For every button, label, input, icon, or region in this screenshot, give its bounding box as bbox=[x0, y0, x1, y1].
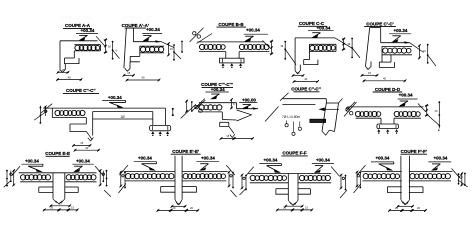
vdim A-A outer bbox=[108, 41, 120, 60]
svg-text:+00.34: +00.34 bbox=[108, 95, 122, 100]
level +00.34 (C-C) bbox=[308, 25, 334, 38]
level +00.34 right (E'-E') bbox=[196, 156, 219, 171]
wall and slab outline A-A bbox=[60, 36, 105, 72]
vdim B-B inner bbox=[270, 40, 274, 55]
level +00.34 (C''-C'') bbox=[102, 95, 125, 108]
slab voids B-B right bbox=[239, 44, 269, 49]
right end vdims E-E bbox=[99, 169, 111, 196]
svg-text:20: 20 bbox=[417, 206, 420, 210]
wall with break C''-C'' detail bbox=[322, 99, 343, 136]
left end vdims F'-F' bbox=[354, 171, 362, 193]
slab voids C'''-C''' bbox=[199, 105, 222, 110]
level +00.34 (C'-C') bbox=[389, 28, 411, 42]
hdim E'-E' wall bbox=[171, 202, 187, 208]
slab voids A-A bbox=[75, 45, 100, 50]
slab voids C''-C'' bbox=[55, 110, 85, 115]
title COUPE C''-C'' bbox=[63, 88, 99, 93]
base pad anchor marks B-B bbox=[221, 59, 242, 68]
slab voids A'-A' bbox=[140, 47, 163, 52]
T-beam outline D-D bbox=[346, 102, 426, 129]
svg-text:15: 15 bbox=[368, 71, 371, 75]
hdim C''-C'' ledge bbox=[72, 141, 91, 147]
svg-text:COUPE B-B: COUPE B-B bbox=[218, 22, 244, 27]
slab voids F'-F' right bbox=[410, 174, 451, 179]
vdim C'-C' cluster bbox=[418, 44, 436, 66]
level +00.00 (C'''-C''') bbox=[239, 97, 257, 109]
svg-text:15: 15 bbox=[59, 202, 62, 206]
cross junction outline E'-E' bbox=[119, 156, 234, 205]
title COUPE F'-F' bbox=[401, 149, 428, 154]
left end vdims E'-E' bbox=[119, 171, 127, 193]
hdim E-E bottom bbox=[43, 206, 79, 212]
svg-text:COUPE C''-C'': COUPE C''-C'' bbox=[291, 87, 321, 92]
svg-text:+00.34: +00.34 bbox=[263, 158, 277, 163]
slab voids D-D right bbox=[394, 111, 420, 116]
hdim E-E stem bbox=[50, 202, 72, 208]
level +00.34 (D-D) bbox=[398, 93, 418, 107]
T-beam outline B-B bbox=[197, 34, 270, 63]
svg-text:ECHELLE 1/20: ECHELLE 1/20 bbox=[296, 15, 327, 20]
faint scale labels bbox=[60, 15, 399, 20]
left end vdims C''-C'' bbox=[34, 106, 47, 124]
svg-text:20: 20 bbox=[177, 202, 180, 206]
level +00.34 right (F'-F') bbox=[428, 156, 451, 171]
level +00.34 left (F'-F') bbox=[371, 156, 394, 171]
T-junction outline E-E bbox=[12, 166, 103, 204]
title COUPE E-E bbox=[45, 151, 70, 156]
left end vdims F-F bbox=[240, 174, 247, 195]
svg-text:15: 15 bbox=[226, 134, 229, 138]
slab voids F-F right bbox=[299, 175, 330, 180]
vdim C'''-C''' step bbox=[230, 98, 235, 109]
hdim C'-C' wall width bbox=[361, 71, 379, 77]
footing anchor marks D-D bbox=[377, 125, 398, 134]
svg-text:+00.00: +00.00 bbox=[242, 97, 256, 102]
title COUPE A-A bbox=[63, 23, 92, 28]
svg-text:20: 20 bbox=[190, 206, 193, 210]
svg-text:+00.34: +00.34 bbox=[316, 158, 330, 163]
mid vertical dimension C''-C'' bbox=[172, 108, 174, 116]
vdim C-C inner bbox=[342, 38, 346, 51]
svg-text:15: 15 bbox=[62, 68, 65, 72]
level +00.34 left (F-F) bbox=[259, 158, 281, 173]
svg-text:40: 40 bbox=[304, 77, 307, 81]
level +00.34 (B-B) bbox=[244, 27, 268, 41]
level +00.34 (A'-A') bbox=[142, 27, 162, 41]
slab voids B-B left bbox=[199, 44, 225, 49]
title COUPE A'-A' bbox=[122, 23, 149, 28]
hdim E'-E' bottom bbox=[157, 206, 200, 212]
vdim B-B outer bbox=[280, 41, 296, 65]
break mark and rebar circles left of B-B bbox=[190, 28, 204, 42]
svg-text:+00.34: +00.34 bbox=[394, 28, 408, 33]
slab lines C''-C'' detail bbox=[280, 93, 326, 105]
svg-text:+00.34: +00.34 bbox=[146, 27, 160, 32]
left end vdims E-E bbox=[4, 169, 15, 187]
slab voids E'-E' left bbox=[126, 174, 174, 179]
parapet wall and slab outline A'-A' bbox=[124, 28, 174, 71]
svg-text:7Ø L=0.80m: 7Ø L=0.80m bbox=[282, 115, 300, 119]
svg-text:COUPE C''-C'': COUPE C''-C'' bbox=[66, 88, 96, 93]
svg-text:COUPE F-F: COUPE F-F bbox=[282, 151, 307, 156]
svg-text:20: 20 bbox=[404, 202, 407, 206]
right end vdims E'-E' bbox=[228, 171, 237, 197]
svg-text:+00.34: +00.34 bbox=[201, 156, 215, 161]
svg-text:1Ø: 1Ø bbox=[120, 115, 125, 119]
break marks right of C''-C'' detail bbox=[344, 102, 357, 117]
right end vdims F'-F' bbox=[458, 172, 468, 187]
level +00.34 (C'''-C''') bbox=[205, 87, 228, 100]
leader arrow C''-C'' detail bbox=[319, 108, 340, 112]
hdim A-A overall bbox=[56, 75, 82, 81]
svg-text:+00.34: +00.34 bbox=[211, 87, 225, 92]
svg-text:+00.34: +00.34 bbox=[138, 156, 152, 161]
level +00.34 right (F-F) bbox=[312, 158, 334, 173]
title COUPE D-D bbox=[373, 87, 403, 92]
right vdims C''-C'' bbox=[181, 99, 205, 119]
svg-text:COUPE E'-E': COUPE E'-E' bbox=[172, 149, 199, 154]
svg-text:+00.34: +00.34 bbox=[246, 27, 260, 32]
title COUPE E'-E' bbox=[171, 149, 201, 154]
break line between sections bbox=[265, 107, 279, 122]
stepped slab outline C'''-C''' bbox=[195, 100, 258, 137]
T-junction outline F-F bbox=[246, 167, 340, 206]
slab voids C'-C' bbox=[383, 48, 411, 53]
slab voids D-D left bbox=[355, 111, 380, 116]
svg-text:30: 30 bbox=[85, 146, 88, 150]
svg-text:+00.34: +00.34 bbox=[317, 25, 331, 30]
svg-text:ECHELLE 1/20: ECHELLE 1/20 bbox=[216, 15, 247, 20]
vdim D-D outer bbox=[427, 101, 440, 131]
svg-text:20: 20 bbox=[50, 206, 53, 210]
hdim F-F bottom bbox=[276, 206, 313, 212]
wall and slab outline C-C bbox=[295, 38, 352, 74]
hdim C''-C'' overall bbox=[74, 146, 100, 152]
svg-text:15: 15 bbox=[305, 206, 308, 210]
title COUPE C'''-C''' bbox=[201, 82, 233, 87]
right end vdims F-F bbox=[340, 174, 347, 198]
title COUPE C-C bbox=[298, 21, 327, 26]
slab and supports outline C''-C'' bbox=[41, 104, 171, 141]
svg-text:15: 15 bbox=[80, 141, 83, 145]
level +00.34 left (E'-E') bbox=[134, 156, 157, 171]
title COUPE B-B bbox=[217, 22, 247, 27]
hdim C'-C' overall bbox=[363, 77, 407, 83]
level +00.34 (A-A) bbox=[76, 28, 98, 41]
vdim C-C outer bbox=[347, 38, 360, 59]
hdim F'-F' bottom bbox=[388, 206, 427, 212]
hdim C-C overall bbox=[293, 77, 319, 83]
svg-text:+00.34: +00.34 bbox=[25, 158, 39, 163]
hdim A'-A' wall width bbox=[123, 71, 135, 77]
svg-text:15: 15 bbox=[127, 71, 130, 75]
slab voids E-E right bbox=[66, 175, 96, 180]
title COUPE C''-C'' detail bbox=[291, 87, 321, 92]
svg-text:ECHELLE 1/20: ECHELLE 1/20 bbox=[60, 15, 91, 20]
svg-text:40: 40 bbox=[68, 75, 71, 79]
hdim C-C wall width bbox=[292, 71, 305, 77]
slab voids E-E left bbox=[20, 175, 50, 180]
svg-text:40: 40 bbox=[383, 77, 386, 81]
rebar dots with leaders bbox=[285, 121, 301, 136]
rebar plate bbox=[310, 119, 326, 122]
svg-text:+00.34: +00.34 bbox=[399, 93, 413, 98]
cross junction outline F'-F' bbox=[357, 156, 460, 205]
svg-text:20: 20 bbox=[172, 206, 175, 210]
svg-text:+00.34: +00.34 bbox=[375, 156, 389, 161]
svg-text:COUPE D-D: COUPE D-D bbox=[375, 87, 401, 92]
footing anchor marks C''-C'' bbox=[151, 126, 169, 136]
svg-text:+00.34: +00.34 bbox=[76, 158, 90, 163]
hdim F-F stem bbox=[284, 202, 303, 208]
hdim A'-A' overall bbox=[126, 76, 161, 82]
vdim between A'-A' and B-B bbox=[181, 41, 183, 53]
svg-text:COUPE E-E: COUPE E-E bbox=[45, 151, 70, 156]
slab voids E'-E' right bbox=[183, 174, 225, 179]
svg-text:40: 40 bbox=[142, 76, 145, 80]
svg-text:15: 15 bbox=[71, 206, 74, 210]
vdim A'-A' cluster bbox=[167, 42, 181, 61]
svg-text:15: 15 bbox=[297, 71, 300, 75]
svg-text:15: 15 bbox=[292, 202, 295, 206]
level +00.34 left (E-E) bbox=[21, 158, 43, 172]
slab voids F'-F' left bbox=[363, 174, 399, 179]
title COUPE C'-C' bbox=[364, 21, 396, 26]
hdim F'-F' wall bbox=[397, 202, 414, 208]
hdim C'''-C''' bottom bbox=[220, 134, 254, 140]
svg-text:+00.34: +00.34 bbox=[433, 156, 447, 161]
hdim A-A wall width bbox=[57, 68, 70, 74]
svg-text:+00.34: +00.34 bbox=[81, 28, 95, 33]
title COUPE F-F bbox=[281, 151, 307, 156]
vdim D-D inner bbox=[425, 104, 429, 117]
slab voids F-F left bbox=[250, 175, 286, 180]
svg-text:ECHELLE 1/20: ECHELLE 1/20 bbox=[122, 15, 153, 20]
svg-text:20: 20 bbox=[283, 206, 286, 210]
level +00.34 right (E-E) bbox=[72, 158, 94, 172]
svg-text:ECHELLE 1/20: ECHELLE 1/20 bbox=[368, 15, 399, 20]
parapet wall and slab outline C'-C' bbox=[366, 28, 424, 70]
slab voids C-C bbox=[310, 45, 336, 50]
vdim A-A inner bbox=[104, 38, 108, 53]
svg-text:COUPE C'-C': COUPE C'-C' bbox=[366, 21, 393, 26]
svg-text:20: 20 bbox=[395, 206, 398, 210]
svg-text:COUPE F'-F': COUPE F'-F' bbox=[401, 149, 427, 154]
svg-text:COUPE A'-A': COUPE A'-A' bbox=[122, 23, 149, 28]
